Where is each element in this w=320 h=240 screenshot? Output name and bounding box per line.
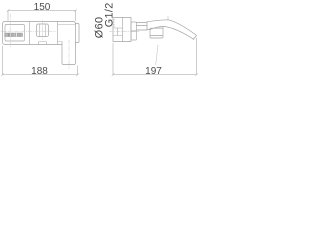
spout tip face: [193, 36, 196, 40]
centerline: down spout vertical: [68, 40, 70, 69]
dimension 197: dim line: [112, 38, 198, 76]
faint outlet extension line: [156, 45, 158, 65]
front view: right side tab: [76, 24, 80, 43]
front view: right section divider: [57, 22, 59, 45]
side view: thread ticks: [113, 20, 115, 27]
down spout rectangle: [62, 42, 76, 65]
right section inner bottom line: [58, 41, 62, 43]
side view: block divider: [122, 18, 124, 42]
centerline: left element vertical: [9, 14, 11, 48]
spout collar: [137, 22, 148, 30]
outlet box under spout: [150, 27, 163, 39]
right section inner top line: [58, 24, 76, 26]
spout apex tick: [167, 16, 169, 20]
centerline: handle vertical: [42, 21, 44, 40]
side view: inlet nipple: [113, 28, 123, 36]
side view: spout holder upper: [131, 22, 137, 31]
spout blade top curve: [147, 20, 197, 36]
svg-text:188: 188: [31, 66, 48, 77]
side view: centerline inlet axis: [110, 31, 140, 33]
front view: left inner plate: [5, 25, 25, 42]
knurled grip hatch: [5, 33, 23, 37]
centerline: body horizontal axis: [1, 30, 56, 32]
handle inner lines: [40, 25, 46, 37]
spout blade bottom curve: [147, 26, 194, 39]
svg-text:150: 150: [34, 2, 51, 13]
svg-text:G1/2: G1/2: [103, 2, 115, 27]
side view: wall block: [113, 18, 131, 42]
dimension 188: dim line: [1, 46, 78, 76]
handle lower tab: [39, 42, 47, 45]
faucet front view: body outline: [3, 22, 76, 45]
svg-text:197: 197: [145, 66, 162, 77]
handle square: [37, 24, 49, 37]
front view: divider line: [29, 22, 31, 45]
side view: spout holder lower: [131, 31, 137, 40]
dimension 150: dim line: [7, 10, 77, 21]
